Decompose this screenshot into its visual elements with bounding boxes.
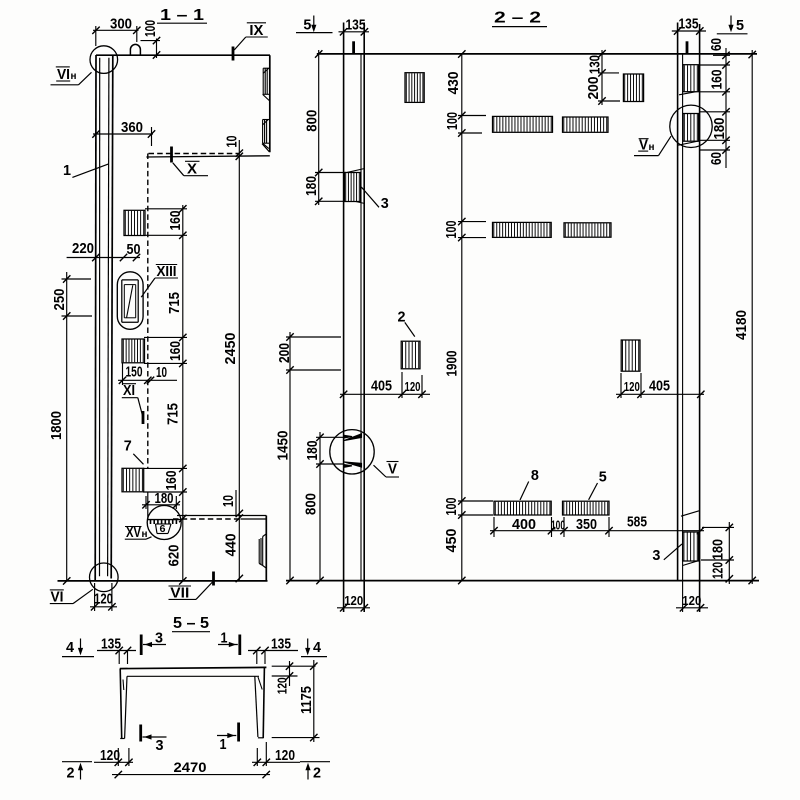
dim 180/120 low xyxy=(728,522,730,584)
flange top right solid xyxy=(241,518,267,520)
svg-text:1: 1 xyxy=(63,162,71,179)
detail circle V xyxy=(330,430,374,474)
right panel inner xyxy=(682,54,684,612)
embed D right xyxy=(621,340,640,371)
svg-text:200: 200 xyxy=(277,343,293,363)
svg-text:800: 800 xyxy=(304,493,320,515)
wedge xyxy=(678,141,698,145)
svg-text:4: 4 xyxy=(313,639,322,656)
sec mark 3 bottom xyxy=(139,725,142,742)
mark 4 right xyxy=(307,639,309,649)
svg-text:4: 4 xyxy=(66,639,75,656)
svg-text:1: 1 xyxy=(220,736,227,753)
flange hidden line xyxy=(173,518,241,520)
svg-text:IX: IX xyxy=(249,23,263,39)
svg-text:160: 160 xyxy=(168,211,184,231)
dim 120 5-5 L xyxy=(94,761,133,763)
svg-text:180: 180 xyxy=(710,539,726,560)
dim 2450 line xyxy=(238,140,240,581)
detail circle XVn xyxy=(147,506,181,540)
dim 405/120 L xyxy=(340,393,430,395)
svg-text:350: 350 xyxy=(576,517,597,533)
flange right edge xyxy=(265,516,267,581)
dim 120 web xyxy=(90,606,117,608)
svg-text:180: 180 xyxy=(304,176,320,196)
dim 130/200 xyxy=(601,50,603,105)
slab top xyxy=(120,667,267,668)
bar row3 left, item 8 xyxy=(494,501,551,515)
svg-text:135: 135 xyxy=(101,636,121,652)
right panel hatch 3 xyxy=(683,532,699,561)
dim chain mid xyxy=(461,54,463,581)
wedge below hatch 3 xyxy=(683,560,700,565)
svg-text:1450: 1450 xyxy=(276,431,292,461)
comb line XV xyxy=(148,519,182,521)
svg-text:2: 2 xyxy=(67,765,75,782)
left leg foot xyxy=(120,738,124,740)
dim chain 160/715 xyxy=(182,205,184,581)
right panel outer-left xyxy=(677,23,679,581)
svg-text:3: 3 xyxy=(381,195,389,212)
svg-text:10: 10 xyxy=(224,136,240,148)
svg-text:1 – 1: 1 – 1 xyxy=(160,7,204,24)
corner mark L xyxy=(122,680,125,691)
embed hatch A1 xyxy=(124,210,145,235)
wedge below xyxy=(344,199,364,204)
comb trapezoid xyxy=(156,523,172,525)
svg-text:220: 220 xyxy=(72,241,94,257)
notch1 top xyxy=(263,67,270,69)
mark 2 left xyxy=(62,761,92,763)
web inner left xyxy=(99,58,101,577)
svg-text:100: 100 xyxy=(444,498,460,516)
svg-text:3: 3 xyxy=(652,547,660,564)
svg-text:150: 150 xyxy=(126,365,143,381)
rib bottom dashed xyxy=(149,153,239,155)
bar row2 left xyxy=(493,222,552,237)
rib right edge xyxy=(269,55,271,152)
leader 3 left xyxy=(361,187,379,207)
leader 1 xyxy=(72,164,108,178)
bar row3 right, item 5 xyxy=(563,501,610,515)
bottom edge 1-1 xyxy=(58,580,268,582)
svg-text:250: 250 xyxy=(52,289,68,311)
svg-text:6: 6 xyxy=(160,524,166,535)
leader 3 right xyxy=(664,544,682,560)
svg-text:VI: VI xyxy=(57,67,70,83)
dim 120 panel R xyxy=(676,607,708,609)
section tick IX xyxy=(232,47,235,61)
svg-text:VII: VII xyxy=(170,586,189,602)
mark 5 right xyxy=(730,16,732,26)
dim 220/50 xyxy=(67,257,140,259)
svg-text:н: н xyxy=(649,142,655,153)
right panel hatch 2 xyxy=(683,114,699,142)
dim 60/160/180/60 xyxy=(725,48,727,168)
left panel inner xyxy=(360,54,362,581)
svg-text:430: 430 xyxy=(446,72,462,95)
svg-text:715: 715 xyxy=(167,292,183,314)
sec mark 3 top xyxy=(140,635,143,656)
rib edge solid piece xyxy=(147,493,149,520)
svg-text:620: 620 xyxy=(167,545,183,567)
svg-text:160: 160 xyxy=(168,341,184,361)
svg-text:2 – 2: 2 – 2 xyxy=(494,10,541,27)
svg-text:3: 3 xyxy=(156,737,164,754)
wedge above xyxy=(344,169,364,174)
dim 135 R xyxy=(672,30,706,32)
svg-text:10: 10 xyxy=(156,365,167,381)
lifting loop bump xyxy=(130,44,140,55)
dim 120 panel L xyxy=(337,607,370,609)
mark 2 right xyxy=(300,761,330,763)
slab bottom xyxy=(127,675,259,677)
dim 150/10 xyxy=(118,379,177,381)
dim 300 xyxy=(93,29,139,31)
svg-text:440: 440 xyxy=(223,534,239,557)
svg-text:XIII: XIII xyxy=(157,264,177,280)
svg-text:1800: 1800 xyxy=(49,411,65,440)
dim 250/1800 xyxy=(66,272,68,581)
svg-text:135: 135 xyxy=(271,636,291,652)
svg-text:X: X xyxy=(187,162,197,178)
hidden rib edge dashed xyxy=(147,154,149,470)
dim 2470 xyxy=(112,774,270,776)
svg-text:180: 180 xyxy=(712,118,728,140)
svg-text:120: 120 xyxy=(682,593,701,608)
embed C left, item 2 xyxy=(401,341,420,369)
embed B2 top-right xyxy=(623,74,643,102)
leader 7 xyxy=(133,454,143,465)
svg-text:180: 180 xyxy=(155,491,174,507)
leader V xyxy=(374,465,387,477)
dim 360 xyxy=(93,133,153,135)
svg-text:160: 160 xyxy=(164,471,180,491)
right leg outer xyxy=(263,667,264,738)
stadium XIII opening xyxy=(117,272,143,330)
corner mark R xyxy=(258,677,262,690)
svg-text:160: 160 xyxy=(710,70,726,90)
leader 8 xyxy=(520,482,529,501)
svg-text:3: 3 xyxy=(155,630,163,647)
svg-text:585: 585 xyxy=(627,515,647,531)
svg-text:130: 130 xyxy=(587,55,603,74)
bottom edge 2-2 xyxy=(286,580,759,582)
svg-text:VI: VI xyxy=(51,590,64,606)
svg-text:360: 360 xyxy=(121,120,143,136)
leader VII xyxy=(196,582,213,599)
svg-text:100: 100 xyxy=(445,112,461,130)
stadium inner frame xyxy=(122,279,138,281)
web outer right xyxy=(111,55,113,579)
leader XVn xyxy=(146,537,152,539)
svg-text:1175: 1175 xyxy=(299,686,315,714)
svg-text:1900: 1900 xyxy=(445,351,461,377)
svg-text:V: V xyxy=(639,137,648,153)
section tick X xyxy=(170,147,173,163)
right leg inner xyxy=(255,676,258,737)
svg-text:100: 100 xyxy=(551,518,565,533)
svg-text:10: 10 xyxy=(221,495,237,507)
rebar stub left xyxy=(352,41,355,54)
top edge 2-2 xyxy=(317,53,757,55)
wedge above hatch 3 xyxy=(681,511,699,516)
notch2 top xyxy=(263,119,270,121)
svg-text:50: 50 xyxy=(127,242,141,258)
top edge 1-1 xyxy=(96,54,270,56)
svg-text:120: 120 xyxy=(624,379,640,394)
rib corner chamfer xyxy=(262,144,269,152)
right panel outer-right xyxy=(699,24,701,612)
bar row1 left xyxy=(493,116,553,132)
weld wedge top xyxy=(344,434,362,441)
svg-text:100: 100 xyxy=(444,221,460,239)
svg-text:8: 8 xyxy=(531,467,539,484)
svg-text:135: 135 xyxy=(679,17,699,33)
dim 4180 xyxy=(751,50,753,584)
svg-text:7: 7 xyxy=(124,438,132,455)
embed hatch A2 xyxy=(122,339,145,363)
svg-text:200: 200 xyxy=(586,77,602,100)
embed B1 top-left xyxy=(405,73,424,103)
detail circle VI bottom xyxy=(90,563,119,592)
dim 120 5-5 R xyxy=(252,761,300,763)
dim 135 5-5 L xyxy=(97,650,136,652)
notch3 xyxy=(258,539,260,564)
svg-text:1: 1 xyxy=(221,630,228,647)
svg-text:120: 120 xyxy=(275,748,295,764)
section tick VII xyxy=(212,572,215,586)
svg-text:2450: 2450 xyxy=(223,333,239,365)
svg-text:5 – 5: 5 – 5 xyxy=(173,615,209,632)
leader XI xyxy=(138,398,143,416)
right panel hatch 1 xyxy=(683,65,699,92)
svg-text:XI: XI xyxy=(123,383,135,399)
ext for dim 10 xyxy=(235,490,237,516)
leader 5 xyxy=(589,483,598,500)
dim 800/180 xyxy=(318,50,320,205)
dim 135 L xyxy=(339,31,370,33)
svg-text:V: V xyxy=(388,462,397,478)
right leg foot xyxy=(258,737,263,739)
svg-text:н: н xyxy=(142,529,148,540)
svg-text:2470: 2470 xyxy=(174,759,207,775)
stadium diagonal xyxy=(127,285,133,317)
svg-text:120: 120 xyxy=(344,593,363,608)
rebar stub right xyxy=(686,41,689,54)
leader 2 xyxy=(405,322,415,336)
dim 1175 xyxy=(313,660,315,742)
svg-text:120: 120 xyxy=(405,379,421,394)
svg-text:180: 180 xyxy=(305,441,321,461)
weld wedge bottom xyxy=(344,462,362,467)
section tick XI xyxy=(142,411,145,424)
dim 400/100/350/585 xyxy=(490,530,704,532)
svg-text:405: 405 xyxy=(649,379,670,395)
svg-text:2: 2 xyxy=(313,765,321,782)
svg-text:5: 5 xyxy=(303,17,311,34)
svg-text:5: 5 xyxy=(599,469,607,486)
svg-text:н: н xyxy=(71,71,77,82)
detail circle VIn top xyxy=(90,46,118,74)
svg-text:120: 120 xyxy=(100,748,120,764)
left panel hatch 180 xyxy=(344,173,360,202)
leader Vn xyxy=(634,155,659,157)
bar row1 right xyxy=(563,117,609,132)
dim 100 top xyxy=(156,39,158,59)
svg-text:450: 450 xyxy=(444,529,460,553)
flange top solid xyxy=(177,515,266,517)
svg-text:120: 120 xyxy=(710,562,726,579)
svg-text:400: 400 xyxy=(512,517,536,533)
svg-text:135: 135 xyxy=(346,17,366,33)
rib bottom solid xyxy=(146,156,269,157)
embed hatch A3 xyxy=(122,468,144,492)
detail circle Vn xyxy=(670,105,712,147)
svg-text:XV: XV xyxy=(126,525,141,541)
leader IX xyxy=(234,37,246,50)
web inner right xyxy=(108,58,109,577)
svg-text:4180: 4180 xyxy=(734,310,750,340)
leader XIII xyxy=(141,278,155,297)
svg-text:60: 60 xyxy=(709,152,725,165)
svg-text:405: 405 xyxy=(371,379,392,395)
svg-text:300: 300 xyxy=(110,17,132,33)
wedge xyxy=(679,91,699,95)
dim 135 5-5 R xyxy=(248,650,298,652)
left leg outer xyxy=(120,669,122,739)
svg-text:2: 2 xyxy=(398,309,406,326)
svg-text:715: 715 xyxy=(166,403,182,425)
dim 180/800 low xyxy=(319,432,321,581)
leader VI xyxy=(73,589,93,603)
left leg inner xyxy=(125,676,127,738)
dim 120 slab xyxy=(289,661,291,686)
dim 200/1450 xyxy=(289,332,291,581)
web outer left xyxy=(94,55,97,581)
svg-text:60: 60 xyxy=(709,38,725,51)
svg-text:120: 120 xyxy=(94,592,113,608)
dim 120/405 R xyxy=(616,393,704,395)
svg-text:100: 100 xyxy=(143,20,159,37)
svg-text:800: 800 xyxy=(305,110,321,132)
bar row2 right xyxy=(564,223,611,237)
dim 180 xyxy=(142,504,180,506)
left panel outer-right xyxy=(363,23,365,613)
svg-text:5: 5 xyxy=(736,17,744,34)
svg-text:120: 120 xyxy=(275,677,290,694)
left panel outer-left xyxy=(343,23,345,613)
leader VIn xyxy=(51,84,79,86)
leader X xyxy=(173,163,184,176)
